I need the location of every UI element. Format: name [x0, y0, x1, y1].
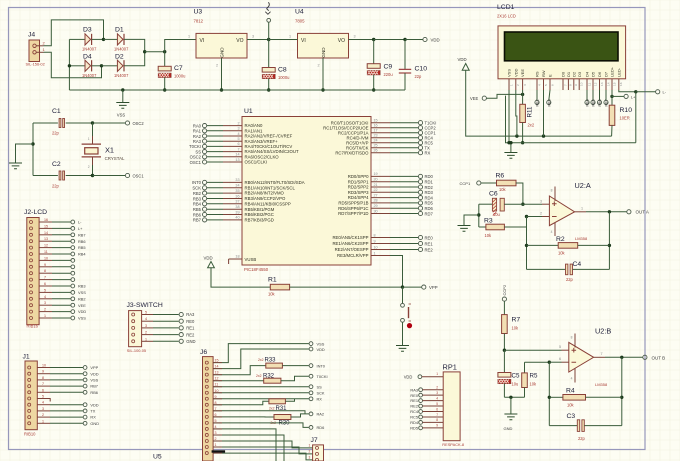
svg-text:RD4: RD4: [410, 420, 419, 425]
U1 pin OSC1 (pin 13): [207, 161, 223, 163]
J2 pin 8 nc: [30, 272, 33, 275]
J2 pin 11 RB4: [30, 253, 33, 256]
resistor R6: [497, 180, 517, 186]
svg-text:1: 1: [188, 35, 190, 39]
svg-text:VDD: VDD: [458, 57, 467, 62]
svg-text:4: 4: [237, 132, 239, 136]
svg-text:13: 13: [600, 82, 604, 86]
svg-text:10ER: 10ER: [620, 116, 630, 121]
wire bridge left column: [68, 39, 70, 90]
node plus input: [521, 203, 524, 206]
terminal RX: [309, 397, 313, 401]
svg-text:25: 25: [374, 144, 378, 148]
node gnd tap: [121, 88, 124, 91]
svg-text:PIC18F4550: PIC18F4550: [244, 267, 269, 272]
svg-text:2: 2: [216, 64, 218, 68]
svg-text:1N4007: 1N4007: [114, 73, 129, 78]
node OSC1: [91, 174, 94, 177]
svg-text:R10: R10: [620, 107, 633, 114]
svg-text:OUT A: OUT A: [636, 210, 649, 215]
svg-text:RC5: RC5: [410, 415, 418, 420]
J6 pin 8: [205, 403, 208, 406]
svg-text:L+: L+: [631, 94, 636, 99]
svg-text:RB6: RB6: [78, 239, 86, 244]
node C9 top: [372, 38, 375, 41]
wire J6.1 to J7.2: [213, 447, 313, 454]
svg-text:C1: C1: [52, 108, 61, 115]
terminal OUT B: [643, 355, 647, 359]
wire D1 cathode to +node: [124, 39, 145, 51]
svg-text:RB7: RB7: [90, 384, 98, 389]
svg-text:4: 4: [145, 317, 147, 321]
ground symbol U2B: [504, 414, 517, 420]
svg-text:RA3: RA3: [410, 387, 418, 392]
wire to VPP terminal: [403, 286, 422, 288]
svg-text:2: 2: [309, 449, 311, 453]
svg-text:GND: GND: [220, 47, 225, 58]
svg-text:RX: RX: [317, 397, 323, 402]
svg-text:4: 4: [436, 396, 438, 400]
terminal RA2: [309, 412, 313, 416]
svg-text:VDD: VDD: [90, 371, 98, 376]
svg-text:RB5: RB5: [592, 99, 596, 106]
J7 pin 2: [316, 452, 319, 455]
svg-text:6: 6: [559, 357, 561, 361]
terminal RB4 under LCD: [586, 90, 588, 100]
U1 pin RD7 (pin 30): [371, 213, 390, 215]
wire D3 anode: [69, 38, 85, 40]
node bridge left: [68, 64, 71, 67]
node C8 gnd: [267, 88, 270, 91]
svg-text:VDD: VDD: [513, 68, 518, 77]
svg-text:D1: D1: [566, 71, 571, 77]
U1 pin CCP1 (pin 17): [371, 132, 390, 134]
svg-text:10: 10: [42, 364, 46, 368]
svg-text:RD1/SPP1: RD1/SPP1: [348, 179, 369, 184]
J1 pin 9 VDD: [28, 372, 31, 375]
svg-text:3: 3: [252, 35, 254, 39]
wire VPP to switch: [402, 287, 404, 303]
svg-text:1: 1: [509, 84, 513, 86]
node VEE pin: [521, 93, 524, 96]
svg-text:VO: VO: [236, 38, 243, 44]
node LED-: [634, 90, 637, 93]
J6 pin 2: [205, 439, 208, 442]
svg-text:SCK: SCK: [317, 391, 325, 396]
U1 pin RB2 (pin 35): [207, 192, 223, 194]
J6 pin 14: [205, 367, 208, 370]
RP1 body: [443, 372, 460, 441]
gnd rail below LCD: [506, 96, 636, 143]
svg-text:23: 23: [374, 134, 378, 138]
wire crystal left column: [32, 123, 34, 176]
J6 pin x: [205, 452, 208, 455]
svg-text:RC4: RC4: [410, 409, 419, 414]
wire flag to node: [268, 22, 270, 39]
terminal VEE: [482, 96, 486, 100]
svg-text:10k: 10k: [558, 251, 566, 256]
wire out col down: [608, 212, 610, 270]
svg-text:RE1: RE1: [186, 326, 195, 331]
svg-text:9: 9: [574, 84, 578, 86]
J6 pin stubs: [213, 362, 222, 364]
svg-text:D3: D3: [577, 71, 582, 77]
U4 GND wire: [322, 58, 324, 90]
svg-text:4: 4: [537, 84, 541, 86]
svg-text:RB7: RB7: [193, 218, 202, 223]
power flag: [267, 18, 271, 22]
node LED+ junction: [610, 95, 613, 98]
LCD1 screen: [505, 32, 619, 61]
svg-text:R1: R1: [268, 277, 277, 284]
svg-text:2: 2: [540, 212, 542, 216]
svg-text:RD5: RD5: [425, 201, 434, 206]
J1 pin 8 VSS: [28, 378, 31, 381]
svg-text:7805: 7805: [295, 19, 305, 24]
svg-text:RD6: RD6: [317, 425, 325, 430]
node R2 left: [525, 244, 528, 247]
svg-text:13: 13: [44, 237, 48, 241]
svg-text:8: 8: [569, 84, 573, 86]
terminal VSS J6: [309, 342, 313, 346]
svg-text:OSC1: OSC1: [133, 173, 145, 178]
wire R6 to plus node: [516, 183, 523, 204]
svg-text:D2: D2: [571, 71, 576, 77]
wire node to U4 VI: [269, 39, 298, 41]
svg-text:RD5/SPP5/P1B: RD5/SPP5/P1B: [338, 201, 368, 206]
capacitor C10: [404, 40, 406, 70]
svg-text:12: 12: [44, 244, 48, 248]
svg-text:8: 8: [551, 189, 553, 193]
svg-text:1: 1: [215, 443, 217, 447]
svg-text:SCK: SCK: [192, 186, 201, 191]
wire R5 top to minus: [525, 361, 550, 363]
svg-text:RE1: RE1: [425, 241, 434, 246]
svg-text:10k: 10k: [512, 326, 520, 331]
svg-text:RE1: RE1: [410, 398, 418, 403]
svg-text:RC7/RX/DT/SDO: RC7/RX/DT/SDO: [335, 150, 369, 155]
svg-text:11: 11: [587, 83, 591, 86]
svg-text:VSS: VSS: [78, 316, 86, 321]
node bridge AC1: [102, 38, 105, 41]
LCD1 body: [498, 26, 626, 79]
svg-text:9: 9: [374, 239, 376, 243]
svg-text:1N4007: 1N4007: [114, 47, 129, 52]
node R2 right: [608, 244, 611, 247]
crystal X1: [92, 123, 94, 136]
svg-text:7: 7: [44, 276, 46, 280]
svg-text:VEE: VEE: [78, 303, 86, 308]
resistor R30: [274, 415, 291, 420]
svg-text:8: 8: [42, 376, 44, 380]
svg-text:R32: R32: [263, 374, 275, 380]
chip U1 body: [242, 117, 371, 266]
J1 pin 7 RB7: [28, 385, 31, 388]
svg-text:RB7: RB7: [78, 232, 86, 237]
svg-text:T0CKI: T0CKI: [317, 374, 328, 379]
svg-text:R6: R6: [496, 173, 505, 180]
wire J4.1 to bridge bottom node: [44, 52, 102, 77]
wire J6.12 to R32: [213, 380, 264, 382]
svg-text:D4: D4: [83, 54, 92, 61]
svg-text:C2: C2: [52, 161, 61, 168]
svg-text:5: 5: [42, 395, 44, 399]
resistor R32: [264, 378, 281, 383]
svg-text:15: 15: [44, 224, 48, 228]
svg-text:2: 2: [44, 308, 46, 312]
U1 pin RD5 (pin 28): [371, 202, 390, 204]
connector J7 body: [313, 445, 324, 461]
U1 pin RD4 (pin 27): [371, 197, 390, 199]
svg-text:14: 14: [235, 153, 239, 157]
wire stub below J6: [212, 450, 226, 452]
svg-text:RD2: RD2: [425, 185, 434, 190]
svg-text:RB7: RB7: [605, 99, 609, 106]
wire J6.7 jog: [213, 411, 305, 414]
U1 pin RB4 (pin 37): [207, 203, 223, 205]
svg-text:RE0: RE0: [410, 393, 418, 398]
svg-text:L+: L+: [78, 226, 83, 231]
J6 pin 3: [205, 433, 208, 436]
node R11 bottom: [521, 141, 524, 144]
svg-text:RB0/AN12/INT0/FLT0/SDI/SDA: RB0/AN12/INT0/FLT0/SDI/SDA: [245, 180, 305, 185]
svg-text:15: 15: [612, 82, 616, 86]
J2 pin 16 L-: [30, 221, 33, 224]
svg-text:D3: D3: [83, 27, 92, 34]
wire J6.4 down: [213, 429, 276, 461]
svg-text:1N4007: 1N4007: [82, 73, 97, 78]
svg-text:7: 7: [436, 413, 438, 417]
terminal RB2 under RS: [536, 90, 538, 100]
wire opamp A output: [575, 211, 586, 213]
terminal RB3 under E: [549, 90, 550, 100]
node U2B minus: [548, 361, 551, 364]
svg-text:34: 34: [235, 184, 239, 188]
svg-text:RA2: RA2: [317, 412, 325, 417]
svg-text:RX: RX: [90, 415, 96, 420]
svg-text:5: 5: [44, 288, 46, 292]
connector J1 body: [25, 361, 37, 430]
U1 pin RA1 (pin 3): [207, 130, 223, 132]
svg-text:1: 1: [374, 251, 376, 255]
svg-text:RB4: RB4: [586, 99, 590, 106]
svg-text:1: 1: [309, 443, 311, 447]
wire R31 right: [285, 399, 294, 402]
wire R3 to minus node: [504, 217, 526, 228]
svg-text:RD6/SPP6/P1C: RD6/SPP6/P1C: [338, 206, 368, 211]
J2 pin 5 VSS: [30, 291, 33, 294]
svg-text:7: 7: [215, 407, 217, 411]
wire D1 anode: [104, 38, 118, 40]
wire up to VI rail: [165, 40, 196, 52]
J2 pin 7 nc: [30, 278, 33, 281]
svg-text:10k: 10k: [530, 382, 538, 387]
wire switch to gnd: [402, 322, 404, 345]
J1 pin 5 nc: [28, 397, 31, 400]
J6 pin 4: [205, 427, 208, 430]
J1 pin 6 RB6: [28, 391, 31, 394]
svg-text:J3-SWITCH: J3-SWITCH: [127, 302, 163, 309]
svg-text:R3: R3: [484, 218, 493, 225]
svg-text:8: 8: [374, 233, 376, 237]
svg-text:VO: VO: [338, 38, 345, 44]
U1 pin RE1 (pin 9): [371, 243, 390, 245]
regulator U3: [196, 33, 247, 58]
node VSS col: [507, 141, 510, 144]
resistor R2: [527, 244, 559, 246]
terminal RB6 under LCD: [599, 90, 601, 100]
wire to OSC2 term: [93, 122, 126, 124]
svg-text:1: 1: [42, 419, 44, 423]
diode D4: [85, 60, 91, 71]
svg-text:U3: U3: [194, 9, 203, 16]
node C7 gnd: [163, 88, 166, 91]
J2 pin 4 RB2: [30, 297, 33, 300]
svg-text:R11: R11: [527, 106, 534, 117]
J6 pin 12: [205, 379, 208, 382]
U1 pin RC5 (pin 24): [371, 142, 390, 144]
U1 pin T1CKI (pin 15): [371, 122, 390, 124]
svg-text:9: 9: [44, 263, 46, 267]
wire minus col down: [526, 217, 528, 270]
wire plus to opamp: [523, 203, 542, 205]
svg-text:E: E: [548, 74, 553, 77]
svg-text:R4: R4: [566, 388, 575, 395]
svg-text:4: 4: [551, 230, 553, 234]
wire bridge out to C7 node: [145, 51, 165, 53]
U1 pin RB7 (pin 40): [207, 219, 223, 221]
svg-text:J2-LCD: J2-LCD: [24, 209, 47, 216]
svg-text:LM358: LM358: [575, 236, 588, 241]
svg-text:D6: D6: [597, 71, 602, 77]
capacitor C3: [549, 425, 577, 427]
svg-text:RB2/AN8/INT2/VMO: RB2/AN8/INT2/VMO: [245, 191, 285, 196]
terminal INT0: [309, 364, 313, 368]
svg-text:RB6: RB6: [90, 390, 98, 395]
wire C6 left col: [478, 204, 480, 227]
svg-text:1: 1: [44, 314, 46, 318]
J2 pin 6 RB3: [30, 285, 33, 288]
svg-text:6: 6: [237, 142, 239, 146]
U1 pin RC4 (pin 23): [371, 137, 390, 139]
svg-text:OSC2: OSC2: [133, 121, 145, 126]
svg-text:U5: U5: [153, 454, 162, 461]
svg-text:4: 4: [44, 295, 46, 299]
U2:A power stubs: [554, 187, 556, 237]
wire xtal gnd stub: [16, 144, 34, 163]
svg-text:35: 35: [235, 189, 239, 193]
svg-text:22p: 22p: [415, 74, 423, 79]
svg-text:RP1: RP1: [443, 362, 457, 371]
svg-text:17: 17: [374, 129, 378, 133]
wire R7 to plus node: [503, 334, 505, 351]
wire lcd gnd stub: [510, 143, 512, 153]
svg-text:8: 8: [215, 401, 217, 405]
wire minus row B: [549, 361, 561, 363]
svg-text:7: 7: [42, 382, 44, 386]
wire minus to opamp: [527, 216, 543, 218]
wire B out col down: [621, 357, 623, 425]
svg-text:R33: R33: [265, 358, 277, 364]
wire C9 node to C10 node: [374, 39, 405, 41]
resistor R10: [611, 96, 613, 105]
U1 pin RD3 (pin 22): [371, 191, 390, 193]
svg-text:8: 8: [436, 418, 438, 422]
svg-text:D5: D5: [591, 71, 596, 77]
svg-text:U2:A: U2:A: [575, 181, 591, 190]
svg-text:2x2: 2x2: [269, 407, 275, 411]
svg-text:C6: C6: [489, 191, 498, 198]
svg-text:RB7/KBI3/PGD: RB7/KBI3/PGD: [245, 218, 274, 223]
svg-text:R5: R5: [530, 373, 538, 380]
wire J6.2 to J7.1: [213, 441, 313, 448]
svg-text:VSS: VSS: [507, 69, 512, 77]
svg-text:10u: 10u: [493, 212, 500, 217]
wire gnd stub U2A: [464, 215, 479, 226]
wire LED- to L- and gnd: [619, 90, 636, 92]
svg-text:RD4: RD4: [425, 195, 434, 200]
svg-text:TX: TX: [90, 409, 95, 414]
wire CCP2 to R7: [503, 301, 505, 314]
U1 pin OSC2 (pin 14): [207, 156, 223, 158]
svg-text:VDD: VDD: [404, 375, 413, 380]
svg-text:20: 20: [374, 178, 378, 182]
svg-text:1000u: 1000u: [278, 75, 289, 80]
resistor R3: [479, 226, 486, 228]
svg-text:4: 4: [215, 425, 217, 429]
svg-text:15: 15: [374, 119, 378, 123]
svg-text:VPP: VPP: [429, 285, 438, 290]
J3 pin 4 RE0: [132, 320, 135, 323]
svg-text:3: 3: [145, 324, 147, 328]
J4 pin 2 stub: [36, 45, 44, 47]
diode D1: [117, 34, 123, 45]
svg-text:CCP2: CCP2: [502, 284, 507, 295]
svg-text:11: 11: [215, 383, 219, 387]
gnd rail: [69, 89, 373, 91]
U1 pin T0CKI (pin 6): [207, 145, 223, 147]
svg-text:36: 36: [235, 194, 239, 198]
svg-text:INT0: INT0: [317, 363, 326, 368]
svg-text:28: 28: [374, 199, 378, 203]
node xtal gnd: [31, 142, 34, 145]
J1 pin 1 GND: [28, 422, 31, 425]
wire VDD terminal: [405, 39, 423, 41]
svg-text:RD6: RD6: [425, 206, 434, 211]
svg-text:SS: SS: [317, 385, 323, 390]
wire LCD RW down: [543, 90, 545, 136]
svg-text:R7: R7: [512, 317, 521, 324]
svg-text:2: 2: [436, 386, 438, 390]
resistor R5: [524, 362, 526, 373]
svg-text:RB5/KBI1/PGM: RB5/KBI1/PGM: [245, 207, 275, 212]
svg-text:U4: U4: [295, 9, 304, 16]
svg-text:2x2: 2x2: [528, 123, 535, 128]
svg-text:RD7/SPP7/P1D: RD7/SPP7/P1D: [338, 211, 368, 216]
U1 pin RX (pin 26): [371, 152, 390, 154]
svg-text:18: 18: [235, 255, 239, 259]
svg-text:3: 3: [309, 455, 311, 459]
svg-text:10k: 10k: [485, 233, 493, 238]
U1 pin RD6 (pin 29): [371, 207, 390, 209]
svg-text:J4: J4: [28, 32, 35, 39]
terminal VDD: [423, 37, 427, 41]
svg-text:RE2/AN7/OESPP: RE2/AN7/OESPP: [335, 247, 369, 252]
wire to OSC1 term: [93, 175, 126, 177]
wire U3 VO to node: [247, 39, 269, 41]
wire J6.5 to RD6: [213, 423, 309, 428]
svg-text:21: 21: [374, 183, 378, 187]
